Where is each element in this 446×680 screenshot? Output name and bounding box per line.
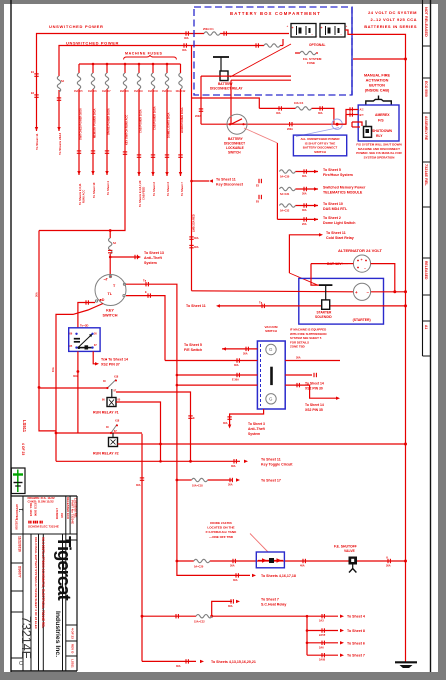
battery disconnect lockable switch (227, 114, 247, 134)
svg-text:5A=C30: 5A=C30 (280, 176, 290, 179)
arrow end wire 2 (57, 127, 60, 131)
svg-text:10A=C18: 10A=C18 (192, 485, 203, 488)
branch to sheet 13 (110, 256, 139, 258)
svg-text:30A: 30A (233, 579, 238, 582)
svg-text:TELEMATICS MODULE: TELEMATICS MODULE (323, 191, 363, 195)
svg-text:KEY: KEY (106, 309, 114, 313)
svg-text:T■: T■ (143, 280, 147, 283)
svg-text:10A=C10: 10A=C10 (148, 90, 158, 93)
svg-text:To Sheet 2: To Sheet 2 (152, 182, 156, 196)
fuse row 1 wire (295, 171, 318, 173)
svg-text:5A=C32: 5A=C32 (280, 210, 290, 213)
alternator wire left (348, 263, 353, 265)
svg-text:5A=C20: 5A=C20 (194, 566, 204, 569)
svg-text:15A=C11: 15A=C11 (162, 90, 172, 93)
svg-text:Anti–Theft: Anti–Theft (248, 427, 266, 431)
wire key toggle row (56, 460, 240, 462)
svg-text:REV O: REV O (71, 644, 75, 654)
col3 wire (106, 64, 108, 73)
svg-text:73214E REL: 73214E REL (424, 164, 428, 186)
fuse F-A on wire A (204, 32, 220, 35)
wire under battery box (192, 98, 260, 108)
solenoid feed wire (220, 305, 322, 307)
diode box (blue) (256, 552, 284, 568)
svg-text:STARTER: STARTER (317, 311, 333, 315)
svg-text:200A: 200A (195, 115, 201, 118)
svg-text:30A: 30A (35, 292, 39, 297)
svg-text:11/22/16: 11/22/16 (15, 519, 19, 530)
wire vertical battery minus drop (230, 80, 232, 124)
svg-text:250A=C1: 250A=C1 (203, 28, 214, 31)
svg-text:2A3: 2A3 (319, 620, 324, 623)
svg-text:10A=C6: 10A=C6 (88, 90, 97, 93)
svg-text:ASSEMBLY RE: ASSEMBLY RE (424, 116, 428, 141)
svg-text:OPTIONAL: OPTIONAL (309, 43, 326, 47)
svg-text:Tc■ To Sheet 14: Tc■ To Sheet 14 (101, 358, 128, 362)
relay contact inside box (74, 338, 80, 340)
svg-text:SYSTEM OPERATION: SYSTEM OPERATION (364, 155, 395, 159)
svg-text:30A: 30A (318, 112, 323, 115)
svg-text:System: System (248, 432, 260, 436)
svg-text:To Sheets 2,4,6,7,20: To Sheets 2,4,6,7,20 (138, 180, 142, 207)
svg-text:918-3 DUAL BATTERY SYSTEM LH 7: 918-3 DUAL BATTERY SYSTEM LH 73214E SHEE… (34, 537, 38, 630)
wire 1 terminals (34, 74, 38, 76)
svg-text:G: G (269, 347, 273, 352)
svg-text:10A=C7: 10A=C7 (102, 90, 111, 93)
to sheets 4,16,17,18 row (177, 561, 250, 575)
svg-text:UNSWITCHED POWER: UNSWITCHED POWER (49, 24, 104, 29)
svg-text:AMEREX: AMEREX (375, 113, 390, 117)
svg-text:A1: A1 (424, 325, 428, 329)
battery disconnect relay symbol (213, 57, 229, 81)
svg-text:SPARE POWER 16GA: SPARE POWER 16GA (107, 108, 111, 135)
col6 wire (152, 64, 154, 73)
svg-text:+: + (355, 290, 358, 295)
main unswitched bus right (405, 59, 407, 662)
svg-text:5A: 5A (113, 242, 116, 245)
wire to sheet 17 row (177, 479, 192, 481)
fe valve feed row (177, 560, 194, 562)
svg-text:To Sheet 2: To Sheet 2 (323, 216, 341, 220)
wire key ST right (126, 296, 165, 361)
svg-text:BATTERIES IN SERIES: BATTERIES IN SERIES (364, 24, 417, 29)
svg-text:RUN RELAY #1: RUN RELAY #1 (93, 411, 119, 415)
alternator wire right down to starter wire (371, 264, 395, 292)
svg-text:▮▮ ▮▮▮ ▮▮: ▮▮ ▮▮▮ ▮▮ (28, 520, 43, 524)
wire key ST into vacuum box (165, 360, 257, 362)
svg-text:5A: 5A (61, 80, 64, 83)
svg-text:F/S: F/S (378, 119, 384, 123)
svg-text:5A=C31: 5A=C31 (280, 193, 290, 196)
amerex feed wires (337, 110, 358, 125)
svg-text:H6-3 853T1-LTF8000 SCHEMATIC,: H6-3 853T1-LTF8000 SCHEMATIC, ELECTRICAL… (41, 537, 45, 628)
svg-text:A☰: A☰ (360, 108, 365, 112)
alternator circle 1 (353, 255, 370, 272)
svg-text:4 OF 23: 4 OF 23 (71, 628, 75, 639)
bus unswitched distribution (79, 63, 181, 65)
svg-text:30A: 30A (228, 605, 233, 608)
svg-text:To Sheet 17: To Sheet 17 (261, 479, 281, 483)
wire B unswitched power 2 (58, 90, 60, 131)
svg-text:20A: 20A (302, 223, 307, 226)
amerex internal component (365, 120, 367, 126)
svg-text:E 30A: E 30A (232, 379, 239, 382)
border frame right (430, 0, 432, 672)
svg-text:SHUTDOWN: SHUTDOWN (372, 129, 393, 133)
svg-text:FUSE: FUSE (307, 61, 315, 65)
svg-text:CAB POWER 10GA: CAB POWER 10GA (139, 109, 143, 133)
svg-text:30A: 30A (176, 665, 181, 668)
wire relay box right to sheet14 (93, 351, 97, 363)
wire relay box bottom down (77, 351, 79, 433)
diagonal wire relay to battery (230, 44, 291, 77)
svg-text:15A=C22: 15A=C22 (194, 621, 205, 624)
svg-text:Key Toggle Circuit: Key Toggle Circuit (261, 463, 293, 467)
run relay 2 coil out / long wire to bus (118, 443, 406, 445)
svg-text:10A=C12: 10A=C12 (176, 90, 186, 93)
svg-text:(INSIDE CAB): (INSIDE CAB) (365, 89, 390, 93)
svg-text:+: + (287, 24, 289, 28)
svg-text:T.: T. (17, 508, 23, 513)
svg-text:RLY: RLY (376, 134, 383, 138)
svg-text:30A: 30A (302, 175, 307, 178)
svg-text:CAB FEED: CAB FEED (142, 187, 146, 200)
svg-text:2–12 VOLT 925 CCA: 2–12 VOLT 925 CCA (371, 17, 417, 22)
svg-text:40A: 40A (300, 565, 305, 568)
run relay 1 contact (107, 380, 116, 389)
wire switched feed down from B (191, 46, 193, 291)
svg-text:DOME LIGHTS 16GA: DOME LIGHTS 16GA (167, 112, 171, 138)
terminal wire A x225 (224, 31, 226, 35)
vertical V3 to bottom rows (141, 434, 143, 662)
svg-text:24 VOLT DC SYSTEM: 24 VOLT DC SYSTEM (368, 10, 417, 15)
svg-text:F.E. SHUTOFF: F.E. SHUTOFF (334, 545, 357, 549)
sender circle bottom (266, 394, 276, 404)
arrow end wire 1 (35, 127, 38, 131)
svg-text:BATTERY BOX COMPARTMENT: BATTERY BOX COMPARTMENT (230, 11, 321, 16)
run relay 2 contact row (56, 432, 142, 434)
svg-text:To Sheet 4: To Sheet 4 (347, 615, 365, 619)
svg-text:4 OF 23: 4 OF 23 (21, 443, 25, 455)
vacuum box right wire 3 (285, 385, 336, 398)
svg-text:ALTERNATOR 24 VOLT: ALTERNATOR 24 VOLT (338, 248, 383, 253)
wire vertical to switch left (200, 76, 202, 124)
svg-text:UNSWITCHED POWER: UNSWITCHED POWER (66, 41, 119, 46)
svg-text:LOCKABLE: LOCKABLE (226, 146, 244, 150)
SCHEMATIC (31, 24, 289, 231)
amerex f/s box (blue) (358, 105, 399, 141)
svg-text:To Sheet 7: To Sheet 7 (261, 598, 279, 602)
svg-text:LTF8000: LTF8000 (55, 508, 59, 520)
battery box compartment (blue dashed) (194, 7, 352, 95)
fuse row 3 wire (295, 205, 318, 207)
svg-text:LOCATED ON THE: LOCATED ON THE (207, 526, 234, 530)
svg-text:To Sheet 11: To Sheet 11 (326, 231, 346, 235)
svg-text:To Sheets 2&13: To Sheets 2&13 (58, 133, 62, 155)
svg-text:F=HYDRAULIc TANK: F=HYDRAULIc TANK (206, 530, 237, 534)
svg-text:11/22/2016 REL: 11/22/2016 REL (74, 498, 78, 519)
svg-text:2A08: 2A08 (319, 659, 326, 662)
svg-text:10A: 10A (51, 367, 55, 372)
svg-text:B☰: B☰ (360, 113, 365, 117)
wire run feed into vacuum box (177, 374, 258, 376)
svg-text:—ONE OFF TBD: —ONE OFF TBD (209, 535, 234, 539)
terminal marks left of rows (259, 179, 261, 183)
vacuum box right wire 1 (285, 360, 340, 362)
svg-text:40A: 40A (182, 49, 187, 52)
svg-text:SWITCH: SWITCH (228, 151, 241, 155)
run relay 2 contact (111, 424, 117, 433)
svg-text:Anti–Theft: Anti–Theft (144, 256, 163, 260)
svg-text:SCHEM ELEC 73214E: SCHEM ELEC 73214E (28, 525, 59, 529)
svg-text:40A: 40A (184, 37, 189, 40)
svg-text:BATTERY: BATTERY (228, 137, 244, 141)
svg-text:+: + (321, 26, 323, 30)
F.E. shutoff valve symbol (349, 557, 358, 573)
svg-text:30A: 30A (302, 209, 307, 212)
switch bar (270, 367, 273, 385)
svg-text:RUN RELAY #2: RUN RELAY #2 (93, 452, 119, 456)
svg-text:11/22/2016: 11/22/2016 (18, 536, 22, 552)
key switch feed bus (109, 231, 111, 239)
col8 wire (180, 64, 182, 73)
svg-text:■D: ■D (100, 298, 105, 302)
key disconnect relay box (blue) (69, 328, 100, 352)
vacuum box bottom wire (230, 409, 264, 426)
fuse on wire 2 (57, 76, 60, 92)
svg-text:Key Disconnect: Key Disconnect (216, 183, 244, 187)
diagonal wire switch to fuse column (244, 128, 277, 143)
svg-text:DISCONNECT RELAY: DISCONNECT RELAY (210, 87, 243, 91)
svg-text:MEMORY POWER 16GA: MEMORY POWER 16GA (93, 108, 97, 138)
highlight circle on junction (332, 119, 342, 129)
svg-text:2A5■: 2A5■ (319, 634, 326, 638)
run relay 2 coil (109, 438, 118, 447)
svg-text:30A: 30A (223, 422, 228, 425)
svg-text:DAS MD4 RTL: DAS MD4 RTL (323, 207, 348, 211)
svg-text:X18: X18 (115, 420, 120, 423)
svg-text:LMB 2GA RED: LMB 2GA RED (192, 214, 196, 232)
starter solenoid (319, 285, 332, 309)
svg-text:ECO 5500: ECO 5500 (424, 81, 428, 97)
svg-text:10A=C4: 10A=C4 (294, 102, 304, 105)
svg-text:LS511: LS511 (71, 659, 75, 668)
svg-text:20A=C8: 20A=C8 (120, 90, 129, 93)
svg-text:To Sheet 3: To Sheet 3 (248, 422, 265, 426)
svg-text:To Sheet 14: To Sheet 14 (305, 403, 324, 407)
leader to note box (blue) (296, 128, 339, 137)
svg-text:30A: 30A (386, 565, 391, 568)
svg-text:Switched Memory Power: Switched Memory Power (323, 186, 366, 190)
starter feed wire through alternator 2 (192, 291, 354, 292)
svg-text:SWITCH: SWITCH (265, 329, 277, 333)
vacuum switch box (blue) (257, 341, 285, 409)
battery B2 (optional) (320, 24, 348, 38)
svg-text:To Sheets 2,3,11: To Sheets 2,3,11 (78, 183, 82, 205)
distribution vertical (306, 616, 308, 655)
wire key ACC left to relay box (78, 303, 95, 328)
svg-text:To Sheet 6: To Sheet 6 (347, 641, 365, 645)
svg-text:RELEASED: RELEASED (424, 261, 428, 280)
svg-text:System: System (144, 261, 157, 265)
svg-text:SWITCHED POWER 16GA: SWITCHED POWER 16GA (79, 108, 83, 140)
svg-text:CAB POWER 16GA: CAB POWER 16GA (153, 106, 157, 130)
key disconnect reference wire (192, 180, 210, 182)
svg-text:To Sheet 11: To Sheet 11 (186, 304, 206, 308)
svg-text:30A: 30A (243, 353, 248, 356)
run relay 1 contact out (116, 392, 191, 461)
svg-text:To Sheet 4: To Sheet 4 (106, 181, 110, 195)
key switch circle (95, 275, 126, 306)
wire feed 2 into vacuum box (177, 384, 258, 386)
svg-text:To Sheet 11: To Sheet 11 (261, 458, 281, 462)
svg-text:NOT RELEASED: NOT RELEASED (424, 7, 428, 37)
row 4 wire (277, 218, 318, 220)
svg-text:+: + (361, 258, 363, 262)
svg-text:BUTTON: BUTTON (369, 84, 385, 88)
svg-text:REL 11/22: REL 11/22 (29, 503, 33, 517)
battery disconnect switch main wire (201, 123, 346, 125)
border frame left (10, 0, 12, 672)
svg-text:X18: X18 (114, 376, 119, 379)
node main junction (336, 123, 339, 126)
col4 wire (key switch feed) (124, 64, 126, 73)
svg-text:XS2 PIN 35: XS2 PIN 35 (305, 408, 323, 412)
svg-text:15A=C5: 15A=C5 (74, 90, 83, 93)
svg-text:DISCONNECT: DISCONNECT (224, 142, 245, 146)
svg-text:30A: 30A (231, 465, 236, 468)
svg-text:To Sheets 4,13,15,16,20,21: To Sheets 4,13,15,16,20,21 (211, 660, 256, 664)
diode symbol (258, 560, 283, 562)
svg-text:DS0677: DS0677 (18, 566, 22, 578)
svg-text:MACHINE FUSES: MACHINE FUSES (125, 52, 163, 56)
svg-text:ZONE TBD: ZONE TBD (290, 345, 305, 349)
svg-text:To Sheet 3: To Sheet 3 (166, 182, 170, 196)
branch row sheet 4 (307, 615, 338, 617)
wire 2 terminal (57, 98, 61, 100)
svg-text:XS2 PIN 30: XS2 PIN 30 (305, 387, 323, 391)
svg-text:918: 918 (60, 513, 64, 518)
revision strip (423, 0, 431, 356)
col2 wire (92, 64, 94, 73)
svg-text:15A=C9: 15A=C9 (134, 90, 143, 93)
svg-text:To Sheets 4,16,17,18: To Sheets 4,16,17,18 (261, 574, 296, 578)
svg-text:TL: TL (108, 292, 113, 296)
node dots on bus (92, 63, 95, 66)
col1 wire (78, 64, 80, 73)
terminal 200A on switch wire (290, 122, 292, 126)
svg-text:To Sheet 5: To Sheet 5 (323, 168, 341, 172)
svg-text:To Sheet 11: To Sheet 11 (216, 178, 236, 182)
svg-text:¬T: ¬T (104, 278, 109, 282)
battery B1 (287, 24, 318, 39)
svg-text:Industries Inc.: Industries Inc. (54, 611, 61, 657)
run relay 1 coil (107, 398, 116, 407)
svg-text:30A: 30A (230, 565, 235, 568)
branch row sheet 8 (307, 630, 338, 632)
to sheet 7 relay row (212, 601, 232, 616)
run relay 1 coil out (116, 402, 161, 461)
svg-text:LS511: LS511 (22, 420, 27, 433)
leader note to diode (250, 534, 268, 553)
manual fire button symbol (366, 96, 392, 106)
run relay 1 contact wire (39, 387, 107, 389)
starter box (blue) (299, 278, 384, 324)
svg-text:-: - (317, 34, 318, 38)
svg-text:30A: 30A (73, 374, 78, 378)
branch row sheet 7 (307, 654, 338, 656)
svg-text:To Sheet 7: To Sheet 7 (347, 654, 365, 658)
svg-text:SWITCH: SWITCH (314, 150, 326, 154)
title block (11, 496, 78, 671)
sender circle top (266, 344, 276, 354)
wire key IGN right (126, 284, 177, 561)
left feed wire down (39, 231, 56, 431)
col7 wire (166, 64, 168, 73)
svg-text:Tigercat: Tigercat (54, 536, 75, 600)
note box (blue) (293, 135, 346, 156)
svg-text:+: + (346, 24, 348, 28)
svg-text:200A: 200A (287, 128, 293, 131)
svg-text:ACTIVATION: ACTIVATION (366, 79, 389, 83)
col5 wire (138, 64, 140, 73)
svg-text:To Sheet 10: To Sheet 10 (323, 202, 343, 206)
title block upper red notes (69, 496, 71, 534)
svg-text:HORN POWER 16GA: HORN POWER 16GA (180, 107, 184, 133)
terminal on wire A right (186, 31, 188, 35)
diagonal wire to solenoid (289, 273, 317, 285)
svg-text:To Sheet 5: To Sheet 5 (184, 343, 202, 347)
svg-text:30A: 30A (228, 484, 233, 487)
svg-text:To Sheet 7: To Sheet 7 (180, 182, 184, 196)
branch row sheet 6 (307, 642, 338, 644)
svg-text:T■: T■ (259, 301, 263, 304)
wire relay rail 2 (231, 79, 291, 81)
fuse row 2 wire (295, 188, 318, 190)
ground symbol (395, 662, 417, 668)
svg-text:ECO 5500: ECO 5500 (34, 503, 38, 517)
brace machine fuses (124, 55, 177, 60)
svg-text:O: O (17, 661, 23, 665)
svg-text:40A: 40A (276, 112, 281, 115)
svg-text:MANUAL FIRE: MANUAL FIRE (364, 74, 391, 78)
cold start relay reference wire (289, 235, 320, 273)
svg-text:30A: 30A (302, 193, 307, 196)
svg-text:73214E: 73214E (19, 616, 33, 659)
fused battery output wire (259, 107, 295, 109)
svg-text:XS2 PIN 37: XS2 PIN 37 (101, 363, 120, 367)
svg-text:To Sheet 11: To Sheet 11 (35, 133, 39, 150)
svg-text:VALVE: VALVE (344, 549, 356, 553)
svg-text:30A: 30A (136, 484, 141, 487)
wire relay bottom rail (201, 75, 291, 77)
terminals on key disconnect drop (189, 237, 193, 239)
svg-text:30A: 30A (194, 237, 199, 240)
bottom-most row (142, 660, 196, 662)
svg-text:SOLENOID: SOLENOID (315, 315, 332, 319)
svg-text:30A: 30A (296, 357, 301, 360)
svg-text:U: U (386, 556, 388, 560)
svg-text:S.C.Heat Relay: S.C.Heat Relay (261, 603, 286, 607)
alternator circle 2 (353, 283, 370, 300)
svg-text:SWITCH: SWITCH (103, 314, 118, 318)
svg-text:RUN / ACC: RUN / ACC (82, 190, 86, 203)
svg-text:To=3D: To=3D (80, 324, 88, 328)
svg-text:–: – (364, 267, 366, 271)
top right battery wires (345, 30, 406, 59)
svg-text:Fire/Hour System: Fire/Hour System (323, 173, 353, 177)
svg-text:30A: 30A (234, 364, 239, 367)
